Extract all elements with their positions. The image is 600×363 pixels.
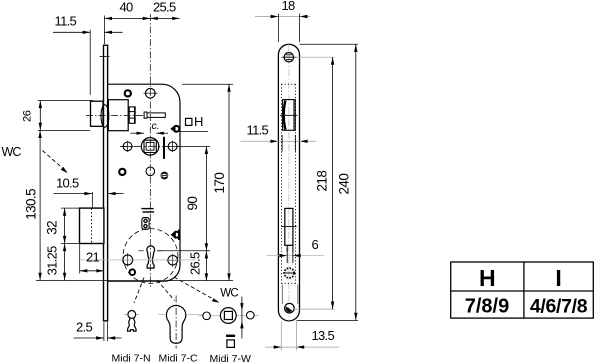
pointer screw lower	[171, 230, 180, 241]
H adjustment piece	[144, 112, 165, 118]
svg-text:4/6/7/8: 4/6/7/8	[530, 296, 588, 318]
bottom screw front view	[285, 303, 295, 313]
table	[451, 262, 594, 318]
dim 170	[182, 84, 233, 281]
svg-text:11.5: 11.5	[55, 14, 77, 29]
dim 13.5 bottom	[265, 321, 339, 351]
Midi 7-N keyhole symbol	[125, 311, 140, 332]
svg-text:H: H	[479, 265, 496, 291]
svg-text:21: 21	[86, 250, 100, 265]
svg-text:6: 6	[312, 237, 319, 252]
dim 31.25	[45, 244, 67, 281]
deadbolt window front view	[282, 208, 297, 251]
svg-text:I: I	[555, 265, 561, 291]
lock case outline	[108, 84, 180, 281]
lock bottom extension line	[36, 280, 233, 282]
svg-text:26.5: 26.5	[187, 252, 202, 275]
svg-text:WC: WC	[220, 287, 238, 299]
svg-text:31.25: 31.25	[45, 246, 60, 276]
dim 240	[297, 44, 358, 320]
dim 11.5 front view	[241, 122, 317, 151]
dim 130.5 left	[24, 130, 42, 280]
torx screw front view	[283, 268, 295, 278]
Midi 7-W WC symbol	[199, 287, 260, 347]
faceplate side view	[100, 45, 110, 321]
spring bar	[163, 137, 165, 159]
handle screw hole left	[122, 141, 134, 152]
dim 11.5 top-left	[53, 14, 123, 95]
svg-text:240: 240	[337, 174, 352, 195]
dim 21	[80, 244, 104, 274]
cylinder screw hole right	[166, 254, 179, 267]
svg-text:170: 170	[212, 173, 227, 194]
cylinder horizontal centerline	[80, 259, 196, 261]
latch centerline	[86, 114, 143, 116]
dim 6 front view	[267, 237, 325, 263]
svg-text:40: 40	[120, 0, 134, 15]
cylinder rosette dashed circle	[123, 229, 178, 284]
hatched nut lower-left	[130, 269, 136, 275]
svg-text:2.5: 2.5	[76, 320, 92, 335]
dim 218	[294, 57, 335, 309]
svg-text:25.5: 25.5	[153, 0, 176, 15]
dim 10.5	[54, 175, 124, 207]
dim 32	[45, 208, 80, 243]
svg-text:Midi 7-C: Midi 7-C	[159, 353, 199, 363]
dim 90	[157, 146, 210, 250]
svg-text:32: 32	[45, 221, 60, 235]
follower hub	[141, 138, 159, 156]
svg-text:90: 90	[185, 197, 200, 211]
barrel piece	[142, 218, 149, 230]
svg-text:Midi 7-W: Midi 7-W	[210, 353, 252, 363]
svg-text:218: 218	[315, 171, 330, 192]
square-H label	[186, 114, 204, 129]
dim 2.5 bottom	[74, 320, 122, 341]
vertical centerline	[149, 14, 151, 288]
dim 26.5	[187, 251, 208, 281]
svg-text:c.: c.	[152, 120, 160, 132]
svg-text:11.5: 11.5	[247, 122, 269, 137]
dashed leader to Midi 7-N	[134, 278, 144, 304]
dim 40 / 25.5 top	[104, 0, 179, 44]
svg-text:13.5: 13.5	[312, 328, 335, 343]
Midi 7-C euro profile symbol	[159, 296, 206, 349]
follower square dim c arrows	[131, 120, 169, 135]
svg-text:Midi 7-N: Midi 7-N	[112, 353, 151, 363]
WC label with dashed leader	[2, 145, 68, 173]
dashed leader to Midi 7-C	[157, 280, 175, 301]
svg-text:10.5: 10.5	[56, 175, 79, 190]
svg-text:WC: WC	[2, 145, 22, 159]
dim 26 left	[22, 101, 94, 131]
screw post top-left (hatched)	[125, 90, 131, 96]
svg-text:18: 18	[282, 0, 296, 13]
latch bolt head	[91, 101, 109, 127]
euro cylinder keyhole	[147, 246, 155, 268]
svg-text:7/8/9: 7/8/9	[465, 296, 509, 318]
keyhole center ticks	[139, 250, 163, 252]
follower centerline	[120, 145, 181, 147]
screw post mid-left (hatched)	[119, 169, 125, 175]
svg-text:26: 26	[22, 110, 34, 122]
dim 18 top	[255, 0, 311, 42]
svg-text:130.5: 130.5	[24, 189, 39, 220]
deadbolt head	[80, 208, 104, 243]
slotted screw mid-right	[161, 173, 168, 179]
cylinder screw hole left	[121, 253, 134, 266]
latch front view	[280, 100, 298, 131]
handle screw hole right	[167, 141, 179, 152]
latch body	[108, 100, 134, 131]
top screw front view	[282, 53, 297, 62]
bottom boss lines	[282, 285, 298, 305]
screw hole mid (plain)	[146, 167, 155, 176]
dashed leader to Midi 7-W with arrow	[174, 277, 220, 303]
front view faceplate	[278, 44, 299, 321]
clip bars	[141, 209, 154, 212]
screw hole top (plain)	[144, 88, 158, 98]
case dotted lines front view	[281, 84, 295, 283]
svg-text:H: H	[194, 114, 203, 129]
pointer screw upper with leader to H label	[170, 125, 208, 133]
